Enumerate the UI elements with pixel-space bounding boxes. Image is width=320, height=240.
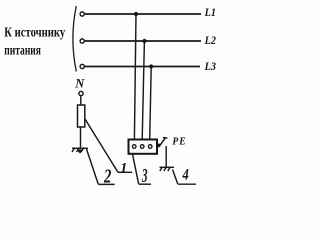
svg-text:L3: L3 <box>204 60 217 73</box>
svg-text:L2: L2 <box>204 34 217 47</box>
svg-text:1: 1 <box>120 160 127 176</box>
svg-text:питания: питания <box>4 41 41 57</box>
svg-text:К источнику: К источнику <box>4 24 66 40</box>
svg-text:PE: PE <box>172 136 186 148</box>
svg-text:L1: L1 <box>204 6 216 19</box>
svg-text:2: 2 <box>103 166 111 187</box>
svg-text:N: N <box>74 76 85 90</box>
svg-text:3: 3 <box>141 164 147 188</box>
svg-text:4: 4 <box>182 167 189 185</box>
